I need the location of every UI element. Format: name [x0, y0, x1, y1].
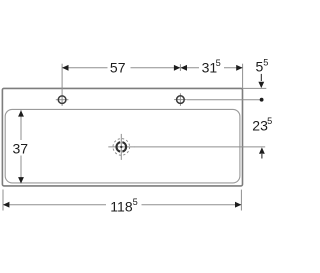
arrow right of 57 [174, 65, 180, 71]
top edge extension line [243, 87, 267, 89]
arrow right of 118.5 [235, 202, 241, 208]
arrow 37 down [18, 177, 24, 183]
dimension line 31.5 [180, 64, 242, 88]
svg-text:57: 57 [110, 60, 126, 76]
dimension line 57 [62, 64, 180, 106]
arrow 37 up [18, 110, 24, 116]
arrow left of 57 [62, 65, 68, 71]
tap hole axis line with dot [187, 99, 262, 101]
arrow right of 31.5 [236, 65, 242, 71]
tap hole left [56, 96, 69, 104]
dimension 118.5 bottom [3, 190, 241, 211]
washbasin outer outline [2, 88, 242, 185]
drain axis extension line [134, 146, 265, 148]
tap hole right [174, 93, 187, 106]
dimension 37 vertical [20, 110, 22, 183]
arrow 5.5 down [260, 74, 262, 81]
svg-text:37: 37 [13, 140, 29, 156]
arrow left of 118.5 [3, 202, 9, 208]
arrow left of 31.5 [181, 65, 187, 71]
washbasin inner bowl rim [5, 109, 240, 182]
drain hole symbol [108, 134, 134, 160]
arrow 23.5 up [259, 147, 265, 153]
